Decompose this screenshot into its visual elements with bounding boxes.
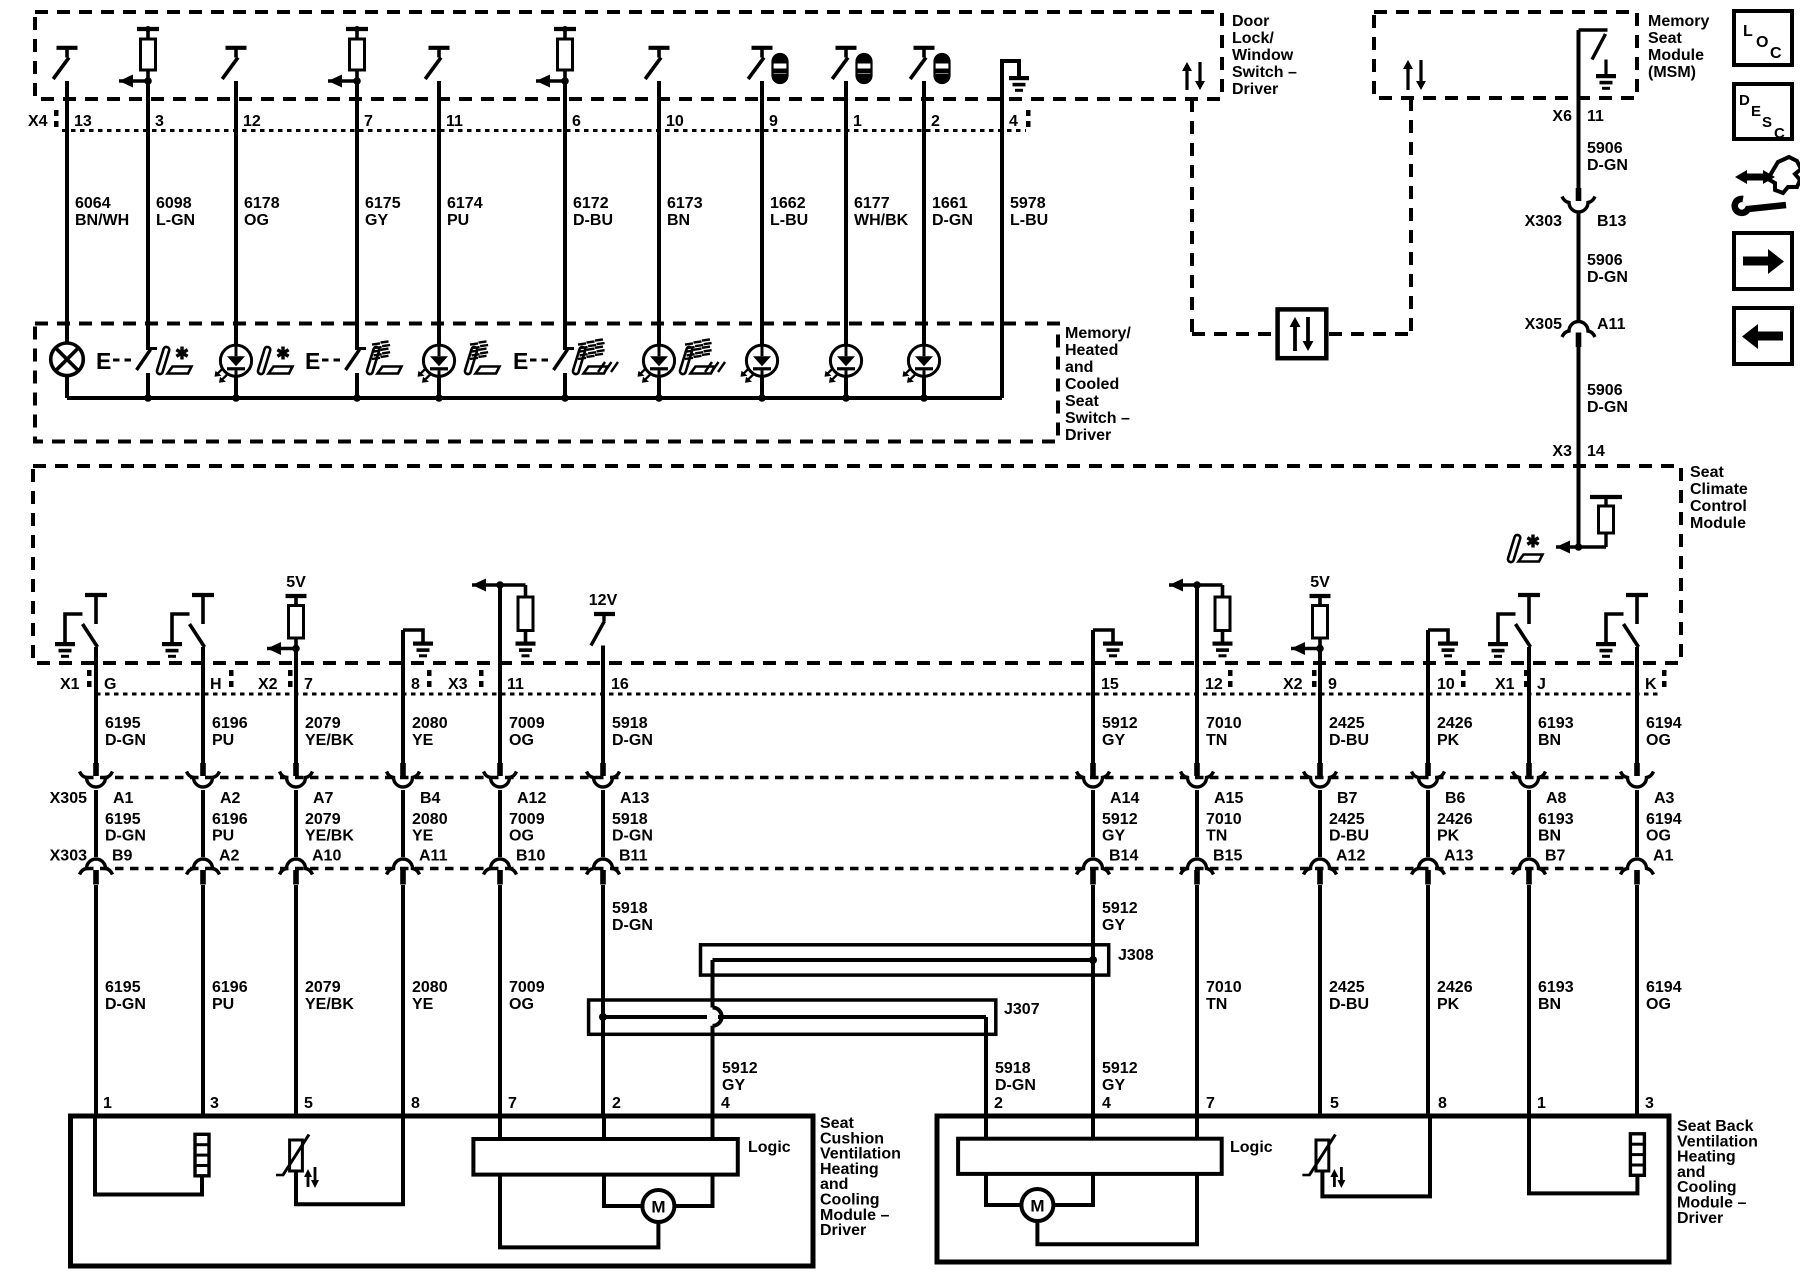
svg-text:D-GN: D-GN xyxy=(105,996,146,1013)
svg-text:8: 8 xyxy=(1438,1095,1447,1112)
connector X305 terminal B7 xyxy=(1317,763,1323,776)
svg-text:D-GN: D-GN xyxy=(612,917,653,934)
svg-text:Logic: Logic xyxy=(1230,1139,1273,1156)
icon box DESC xyxy=(1734,84,1792,139)
svg-text:7009: 7009 xyxy=(509,979,545,996)
svg-text:L: L xyxy=(1743,23,1753,40)
svg-text:D-GN: D-GN xyxy=(612,732,653,749)
LED indicator (pin 2) xyxy=(908,345,939,376)
box: Seat Back Ventilation Heating and Cooling Module - Driver xyxy=(937,1116,1669,1262)
svg-text:16: 16 xyxy=(611,676,629,693)
heated/vent seat icon (pin 10) xyxy=(679,346,693,374)
svg-text:L-GN: L-GN xyxy=(156,212,195,229)
wire 2426 between connectors xyxy=(1426,790,1430,857)
svg-text:A8: A8 xyxy=(1546,790,1567,807)
svg-text:1: 1 xyxy=(103,1095,112,1112)
svg-text:12V: 12V xyxy=(589,592,618,609)
dotted connector line below SCCM pins xyxy=(96,693,1660,696)
svg-text:X305: X305 xyxy=(50,790,87,807)
wire 2079 YE/BK to seat cushion module xyxy=(294,885,298,1118)
ground at SCCM pin H xyxy=(162,642,182,646)
svg-text:4: 4 xyxy=(721,1095,730,1112)
wire 7009 OG to seat cushion module xyxy=(498,885,502,1118)
svg-text:Module: Module xyxy=(1690,515,1746,532)
thermistor in seat cushion module xyxy=(290,1140,303,1171)
wire from SCCM pin 7 xyxy=(294,649,298,765)
window icon at switch pin 1 xyxy=(857,54,872,83)
common bus wire in seat switch xyxy=(67,396,1002,400)
box: Memory Seat Module (MSM) xyxy=(1374,12,1637,98)
svg-text:A1: A1 xyxy=(113,790,134,807)
svg-text:12: 12 xyxy=(243,113,261,130)
wire 5912 between connectors xyxy=(1091,790,1095,857)
ground in Memory Seat Module xyxy=(1604,60,1607,75)
cooled seat icon (pin 12) xyxy=(257,346,271,374)
svg-text:Driver: Driver xyxy=(1232,81,1278,98)
svg-text:2425: 2425 xyxy=(1329,811,1365,828)
svg-text:D-GN: D-GN xyxy=(105,732,146,749)
svg-text:1662: 1662 xyxy=(770,195,806,212)
wire 5906 D-GN from MSM X6-11 xyxy=(1577,30,1581,188)
svg-text:15: 15 xyxy=(1101,676,1119,693)
svg-text:12: 12 xyxy=(1205,676,1223,693)
signal arrow + resistor to ground in SCCM (pin 12) xyxy=(1169,583,1223,587)
svg-text:C: C xyxy=(1770,45,1782,62)
heater element in seat cushion module xyxy=(195,1134,209,1176)
svg-text:OG: OG xyxy=(1646,828,1671,845)
wire from SCCM pin 16 xyxy=(601,646,605,765)
svg-text:Door: Door xyxy=(1232,13,1269,30)
svg-text:Driver: Driver xyxy=(1065,427,1111,444)
svg-text:OG: OG xyxy=(1646,732,1671,749)
ground connection in SCCM (pin 8) xyxy=(403,630,423,642)
svg-text:D-GN: D-GN xyxy=(1587,269,1628,286)
wire 7010 between connectors xyxy=(1195,790,1199,857)
svg-text:6173: 6173 xyxy=(667,195,703,212)
svg-text:OG: OG xyxy=(509,732,534,749)
svg-text:X4: X4 xyxy=(28,113,48,130)
svg-text:E: E xyxy=(96,348,111,374)
wire from SCCM pin 8 xyxy=(401,630,405,764)
svg-text:5906: 5906 xyxy=(1587,382,1623,399)
svg-text:D-GN: D-GN xyxy=(995,1077,1036,1094)
svg-text:7: 7 xyxy=(508,1095,517,1112)
svg-text:2426: 2426 xyxy=(1437,979,1473,996)
svg-text:5: 5 xyxy=(1330,1095,1339,1112)
svg-text:1: 1 xyxy=(1537,1095,1546,1112)
svg-text:YE/BK: YE/BK xyxy=(305,828,354,845)
wire 6175 GY (circuit 6175) xyxy=(355,81,359,348)
svg-text:2426: 2426 xyxy=(1437,811,1473,828)
svg-text:5V: 5V xyxy=(286,574,306,591)
svg-text:7: 7 xyxy=(364,113,373,130)
svg-text:D-GN: D-GN xyxy=(1587,157,1628,174)
switch S10 (door lock/window switch, pin 10) xyxy=(649,46,670,50)
svg-text:3: 3 xyxy=(155,113,164,130)
wire loop pin5-pin8 in cushion module xyxy=(296,1116,403,1204)
wire 6174 PU (circuit 6174) xyxy=(437,81,441,345)
wire 1662 L-BU (circuit 1662) xyxy=(760,81,764,345)
svg-text:YE: YE xyxy=(412,828,434,845)
svg-text:2: 2 xyxy=(612,1095,621,1112)
svg-text:J: J xyxy=(1537,676,1546,693)
svg-text:Switch –: Switch – xyxy=(1065,410,1130,427)
svg-text:10: 10 xyxy=(1437,676,1455,693)
svg-text:PU: PU xyxy=(447,212,469,229)
junction on bus at x=924 xyxy=(920,394,928,402)
svg-text:A2: A2 xyxy=(220,790,241,807)
motor M in seat cushion module xyxy=(642,1190,674,1222)
heated seat output branch in SCCM (X3-14) xyxy=(1575,543,1583,551)
svg-text:7010: 7010 xyxy=(1206,979,1242,996)
icon box left-arrow xyxy=(1734,308,1792,364)
in-line connector X303 B13 xyxy=(1576,188,1582,201)
svg-text:3: 3 xyxy=(1645,1095,1654,1112)
wire loop pin3-pin1 in back module xyxy=(1529,1116,1637,1193)
svg-text:2: 2 xyxy=(931,113,940,130)
svg-text:11: 11 xyxy=(507,676,524,693)
svg-text:1661: 1661 xyxy=(932,195,968,212)
svg-text:2079: 2079 xyxy=(305,979,341,996)
connector X305 terminal A7 xyxy=(293,763,299,776)
svg-text:A13: A13 xyxy=(620,790,649,807)
junction on bus at x=236 xyxy=(232,394,240,402)
svg-text:OG: OG xyxy=(509,828,534,845)
svg-text:2426: 2426 xyxy=(1437,715,1473,732)
dashed link wire from Door Lock/Window Switch xyxy=(1190,99,1194,334)
svg-text:2079: 2079 xyxy=(305,811,341,828)
svg-text:G: G xyxy=(104,676,116,693)
junction on bus at x=148 xyxy=(144,394,152,402)
wire 6193 between connectors xyxy=(1527,790,1531,857)
cooled seat icon (pin 3) xyxy=(156,346,170,374)
svg-text:X2: X2 xyxy=(1283,676,1303,693)
svg-text:GY: GY xyxy=(1102,1077,1125,1094)
wire 2425 D-BU to seat back module xyxy=(1318,885,1322,1118)
svg-text:B4: B4 xyxy=(420,790,441,807)
svg-text:5918: 5918 xyxy=(612,715,648,732)
svg-text:PU: PU xyxy=(212,996,234,1013)
connector X305 terminal A2 xyxy=(200,763,206,776)
svg-text:BN/WH: BN/WH xyxy=(75,212,129,229)
svg-text:D-BU: D-BU xyxy=(573,212,613,229)
in-line connector X305 A11 xyxy=(1562,322,1595,338)
LED indicator (pin 1) xyxy=(830,345,861,376)
svg-text:6196: 6196 xyxy=(212,715,248,732)
up/down arrows in Door Lock/Window Switch box xyxy=(1185,69,1188,90)
svg-text:B7: B7 xyxy=(1337,790,1358,807)
svg-text:Memory: Memory xyxy=(1648,13,1709,30)
svg-text:A10: A10 xyxy=(312,848,341,865)
resistor in switch assembly, pin 6 xyxy=(554,27,576,31)
connector X305 terminal B4 xyxy=(400,763,406,776)
svg-text:4: 4 xyxy=(1102,1095,1111,1112)
wire 5912 GY from J308 to seat cushion module pin 4 xyxy=(711,960,715,1008)
svg-text:E: E xyxy=(513,348,528,374)
connector X305 terminal A1 xyxy=(93,763,99,776)
svg-text:A7: A7 xyxy=(313,790,334,807)
in-line connector X305 dashed line xyxy=(85,776,1625,779)
svg-text:2080: 2080 xyxy=(412,811,448,828)
svg-text:A14: A14 xyxy=(1110,790,1139,807)
svg-text:PK: PK xyxy=(1437,732,1460,749)
wire 2079 between connectors xyxy=(294,790,298,857)
box: Door Lock/Window Switch - Driver xyxy=(35,12,1222,99)
svg-text:A13: A13 xyxy=(1444,848,1473,865)
svg-text:B14: B14 xyxy=(1109,848,1138,865)
svg-text:5912: 5912 xyxy=(722,1060,758,1077)
wire from SCCM pin K xyxy=(1635,647,1639,764)
svg-text:X303: X303 xyxy=(1525,213,1562,230)
svg-text:6098: 6098 xyxy=(156,195,192,212)
icon box right-arrow xyxy=(1734,233,1792,289)
up/down arrows in Memory Seat Module box xyxy=(1406,67,1409,90)
svg-text:14: 14 xyxy=(1587,443,1605,460)
svg-text:TN: TN xyxy=(1206,732,1227,749)
svg-text:J307: J307 xyxy=(1004,1001,1040,1018)
heated seat icon (pin 11) xyxy=(464,346,478,374)
svg-text:6196: 6196 xyxy=(212,979,248,996)
svg-text:6193: 6193 xyxy=(1538,979,1574,996)
svg-text:PK: PK xyxy=(1437,996,1460,1013)
svg-text:5V: 5V xyxy=(1310,574,1330,591)
svg-text:J308: J308 xyxy=(1118,947,1154,964)
heated seat icon (pin 7) xyxy=(366,346,380,374)
svg-text:6: 6 xyxy=(572,113,581,130)
connector X305 terminal A12 xyxy=(497,763,503,776)
svg-text:D-GN: D-GN xyxy=(105,828,146,845)
svg-text:Driver: Driver xyxy=(820,1222,866,1239)
svg-text:6177: 6177 xyxy=(854,195,890,212)
wire 2426 PK to seat back module xyxy=(1426,885,1430,1118)
logic block in seat cushion module xyxy=(473,1139,737,1175)
svg-text:GY: GY xyxy=(722,1077,745,1094)
switch S11 (door lock/window switch, pin 11) xyxy=(429,46,450,50)
switch to ground in SCCM (pin J) xyxy=(1518,593,1540,597)
svg-text:A3: A3 xyxy=(1654,790,1675,807)
wire 5912 GY from X303 B14 xyxy=(1091,885,1095,1118)
ground in Door Lock/Window switch (pin 4 feed) xyxy=(1002,61,1019,398)
svg-text:5906: 5906 xyxy=(1587,140,1623,157)
svg-text:L-BU: L-BU xyxy=(770,212,808,229)
dashed link wire to Memory Seat Module xyxy=(1329,332,1411,336)
svg-text:GY: GY xyxy=(1102,917,1125,934)
switch S2 (door lock/window switch, pin 2) xyxy=(914,46,935,50)
svg-text:A11: A11 xyxy=(1597,316,1626,333)
cooled seat icon in SCCM xyxy=(1507,534,1521,562)
svg-text:A1: A1 xyxy=(1653,848,1674,865)
svg-text:7009: 7009 xyxy=(509,811,545,828)
switch to ground in SCCM (pin H) xyxy=(192,593,214,597)
svg-text:7: 7 xyxy=(304,676,313,693)
connector X305 terminal A8 xyxy=(1526,763,1532,776)
svg-text:YE: YE xyxy=(412,996,434,1013)
svg-text:5918: 5918 xyxy=(612,811,648,828)
svg-text:5978: 5978 xyxy=(1010,195,1046,212)
svg-text:O: O xyxy=(1756,34,1768,51)
svg-text:2080: 2080 xyxy=(412,715,448,732)
svg-text:A2: A2 xyxy=(219,848,240,865)
svg-text:B11: B11 xyxy=(619,848,648,865)
svg-text:6193: 6193 xyxy=(1538,715,1574,732)
svg-text:7010: 7010 xyxy=(1206,715,1242,732)
svg-text:D: D xyxy=(1739,92,1750,109)
svg-text:5912: 5912 xyxy=(1102,1060,1138,1077)
svg-text:2079: 2079 xyxy=(305,715,341,732)
wires into back logic xyxy=(984,1116,988,1139)
thermistor in seat back module xyxy=(1316,1140,1329,1171)
svg-text:D-GN: D-GN xyxy=(612,828,653,845)
LED indicator (pin 11) xyxy=(423,345,454,376)
wire 6172 D-BU (circuit 6172) xyxy=(563,81,567,348)
svg-text:X6: X6 xyxy=(1552,108,1572,125)
heater element in seat back module xyxy=(1630,1134,1644,1176)
svg-text:and: and xyxy=(1065,359,1093,376)
svg-text:8: 8 xyxy=(411,676,420,693)
wire from SCCM pin 10 xyxy=(1426,630,1430,764)
dotted connector line X4 xyxy=(62,129,1026,132)
junction on bus at x=846 xyxy=(842,394,850,402)
svg-text:Driver: Driver xyxy=(1677,1210,1723,1227)
LED indicator (pin 12) xyxy=(220,345,251,376)
svg-text:B6: B6 xyxy=(1445,790,1466,807)
svg-text:7: 7 xyxy=(1206,1095,1215,1112)
wire from SCCM pin 11 xyxy=(498,585,502,764)
up/down arrow junction box xyxy=(1278,309,1327,358)
svg-text:3: 3 xyxy=(210,1095,219,1112)
svg-text:D-BU: D-BU xyxy=(1329,996,1369,1013)
svg-text:TN: TN xyxy=(1206,996,1227,1013)
svg-text:6178: 6178 xyxy=(244,195,280,212)
svg-text:13: 13 xyxy=(74,113,92,130)
wire 6173 BN (circuit 6173) xyxy=(657,81,661,345)
connector X305 terminal A15 xyxy=(1194,763,1200,776)
wires into cushion logic xyxy=(498,1116,502,1139)
svg-text:M: M xyxy=(1030,1197,1044,1216)
wire from SCCM pin G xyxy=(94,647,98,764)
svg-text:5: 5 xyxy=(304,1095,313,1112)
svg-text:YE/BK: YE/BK xyxy=(305,996,354,1013)
svg-text:(MSM): (MSM) xyxy=(1648,64,1696,81)
svg-text:5906: 5906 xyxy=(1587,252,1623,269)
svg-text:6194: 6194 xyxy=(1646,979,1682,996)
wire 5918 D-GN from J307 to seat back module pin 2 xyxy=(984,1017,988,1118)
svg-text:6172: 6172 xyxy=(573,195,609,212)
junction on bus at x=439 xyxy=(435,394,443,402)
connector X305 terminal B6 xyxy=(1425,763,1431,776)
heated/vent seat icon (pin 6) xyxy=(572,346,586,374)
logic block in seat back module xyxy=(958,1139,1222,1174)
svg-text:5912: 5912 xyxy=(1102,811,1138,828)
wire 6193 BN to seat back module xyxy=(1527,885,1531,1118)
motor M in seat back module xyxy=(1021,1189,1053,1221)
svg-text:2080: 2080 xyxy=(412,979,448,996)
svg-text:B7: B7 xyxy=(1545,848,1566,865)
indicator lamp (pin 13) xyxy=(51,343,84,376)
wire 6178 OG (circuit 6178) xyxy=(234,81,238,345)
svg-text:11: 11 xyxy=(1587,108,1604,125)
switch in Memory Seat Module (X6 pin 11) xyxy=(1579,28,1608,32)
junction on bus at x=762 xyxy=(758,394,766,402)
box: Memory/Heated and Cooled Seat Switch - Driver xyxy=(35,324,1058,442)
svg-text:6194: 6194 xyxy=(1646,811,1682,828)
icon curved arrows xyxy=(1735,170,1775,184)
junction on bus at x=565 xyxy=(561,394,569,402)
svg-text:X3: X3 xyxy=(1552,443,1572,460)
svg-text:E: E xyxy=(305,348,320,374)
wire 5906 D-GN (2) xyxy=(1577,213,1581,322)
switch to ground in SCCM (pin G) xyxy=(85,593,107,597)
svg-text:X305: X305 xyxy=(1525,316,1562,333)
svg-text:2: 2 xyxy=(994,1095,1003,1112)
motor wiring in cushion module xyxy=(604,1175,642,1206)
svg-text:PU: PU xyxy=(212,828,234,845)
junction on bus at x=659 xyxy=(655,394,663,402)
svg-text:M: M xyxy=(651,1198,665,1217)
motor wiring in back module xyxy=(986,1174,1021,1205)
svg-text:6195: 6195 xyxy=(105,979,141,996)
svg-text:2425: 2425 xyxy=(1329,715,1365,732)
svg-text:D-BU: D-BU xyxy=(1329,732,1369,749)
svg-text:5918: 5918 xyxy=(612,900,648,917)
resistor in SCCM heated-seat branch xyxy=(1590,495,1622,499)
svg-text:PK: PK xyxy=(1437,828,1460,845)
svg-text:Lock/: Lock/ xyxy=(1232,30,1274,47)
svg-text:6194: 6194 xyxy=(1646,715,1682,732)
junction on bus at x=357 xyxy=(353,394,361,402)
svg-text:S: S xyxy=(1762,114,1772,131)
svg-text:K: K xyxy=(1645,676,1657,693)
svg-text:6175: 6175 xyxy=(365,195,401,212)
splice pack J307 xyxy=(589,1000,996,1034)
resistor in switch assembly, pin 7 xyxy=(346,27,368,31)
wire 5918 between connectors xyxy=(601,790,605,857)
svg-text:X1: X1 xyxy=(1495,676,1515,693)
svg-text:YE: YE xyxy=(412,732,434,749)
connector X305 terminal A13 xyxy=(600,763,606,776)
svg-text:6064: 6064 xyxy=(75,195,111,212)
svg-text:TN: TN xyxy=(1206,828,1227,845)
svg-text:B15: B15 xyxy=(1213,848,1242,865)
ground connection in SCCM (pin 15) xyxy=(1093,630,1113,642)
LED indicator (pin 9) xyxy=(746,345,777,376)
svg-text:BN: BN xyxy=(1538,732,1561,749)
wire from SCCM pin 15 xyxy=(1091,630,1095,764)
svg-text:Logic: Logic xyxy=(748,1139,791,1156)
svg-text:5912: 5912 xyxy=(1102,715,1138,732)
wire 6194 OG to seat back module xyxy=(1635,885,1639,1118)
svg-text:BN: BN xyxy=(1538,828,1561,845)
in-line connector X303 dashed line xyxy=(85,867,1625,870)
svg-text:D-GN: D-GN xyxy=(932,212,973,229)
wire 6064 BN/WH (circuit 6064) xyxy=(65,81,69,345)
svg-text:H: H xyxy=(210,676,222,693)
svg-text:GY: GY xyxy=(365,212,388,229)
svg-text:X2: X2 xyxy=(258,676,278,693)
wire loop pin5-pin8 in back module xyxy=(1322,1116,1430,1196)
svg-text:OG: OG xyxy=(244,212,269,229)
svg-text:X303: X303 xyxy=(50,848,87,865)
switch to ground in SCCM (pin K) xyxy=(1626,593,1648,597)
svg-text:OG: OG xyxy=(509,996,534,1013)
svg-text:7010: 7010 xyxy=(1206,811,1242,828)
svg-text:A12: A12 xyxy=(1336,848,1365,865)
icon box LOC xyxy=(1734,11,1792,65)
svg-text:B13: B13 xyxy=(1597,213,1626,230)
svg-text:1: 1 xyxy=(853,113,862,130)
LED indicator (pin 10) xyxy=(643,345,674,376)
switch S9 (door lock/window switch, pin 9) xyxy=(752,46,773,50)
